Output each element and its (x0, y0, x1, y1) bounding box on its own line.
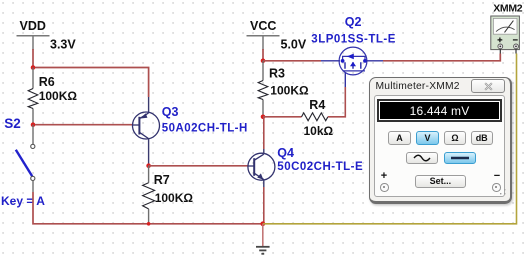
button DC (line) selected (444, 152, 477, 165)
wire R7 node to Q4 base (149, 165, 248, 167)
VCC power symbol (247, 36, 280, 50)
transistor Q3 (PNP 50A02CH-TL-H) (133, 112, 160, 139)
minus terminal (492, 183, 501, 192)
node VCC junction (261, 59, 266, 64)
wire S2 node to Q3 base (35, 124, 133, 126)
svg-text:3LP01SS-TL-E: 3LP01SS-TL-E (311, 34, 396, 46)
node R7 junction (146, 163, 151, 168)
wire Q4 emitter to ground rail (263, 187, 265, 224)
wire node to R4 (263, 116, 302, 118)
resistor R7 leads (148, 166, 150, 224)
wire VDD stem (32, 49, 34, 68)
Q3 emitter arrow (PNP) (140, 113, 147, 118)
node R7 bottom (147, 222, 151, 226)
Q2 substrate arrow (350, 62, 356, 66)
svg-text:3.3V: 3.3V (50, 38, 76, 52)
multimeter dialog window (369, 77, 512, 204)
wire Q2 gate pin (344, 72, 346, 87)
wire VDD node to Q3 emitter (top rail) (33, 68, 149, 98)
resistor R6 leads (32, 68, 34, 125)
dialog title (376, 81, 460, 92)
wire Q3 emitter pin (148, 97, 150, 113)
button Ω (444, 131, 466, 145)
svg-text:5.0V: 5.0V (281, 37, 307, 51)
ground stem (262, 224, 264, 246)
wire Q2 right pin (367, 60, 384, 62)
node ground junction (260, 221, 265, 226)
transistor Q4 (NPN 50C02CH-TL-E) (248, 153, 275, 180)
resistor R6 (28, 89, 38, 109)
svg-text:VCC: VCC (250, 19, 276, 33)
svg-text:100KΩ: 100KΩ (155, 191, 194, 205)
button V selected (416, 131, 440, 145)
svg-text:R4: R4 (309, 98, 325, 112)
svg-text:Q4: Q4 (277, 146, 294, 160)
svg-text:R6: R6 (39, 75, 55, 89)
svg-text:Q2: Q2 (345, 15, 362, 29)
switch S2 bottom contact (31, 176, 35, 180)
resistor R7 (143, 183, 155, 209)
resize grip (499, 188, 506, 195)
plus terminal label (381, 170, 387, 182)
svg-text:Key = A: Key = A (1, 194, 45, 208)
resistor R3 (258, 81, 268, 100)
switch S2 top contact (31, 144, 35, 148)
resistor R4 (302, 113, 328, 121)
svg-text:50C02CH-TL-E: 50C02CH-TL-E (277, 161, 363, 173)
svg-text:50A02CH-TL-H: 50A02CH-TL-H (162, 123, 248, 135)
wire ground rail to XMM2 minus (yellow net) (263, 54, 517, 224)
resistor R3 leads (262, 61, 264, 117)
Q2 pin dots (341, 59, 345, 63)
svg-text:100KΩ: 100KΩ (39, 89, 78, 103)
wire Q2 left pin (321, 60, 340, 62)
Q4 emitter arrow (NPN) (257, 173, 263, 179)
wire switch to bottom rail (33, 192, 263, 224)
svg-text:VDD: VDD (20, 19, 46, 33)
VDD power symbol (17, 36, 50, 50)
wire VCC stem (262, 49, 264, 61)
svg-text:R7: R7 (154, 173, 170, 187)
multimeter XMM2 icon (491, 16, 520, 54)
svg-text:R3: R3 (269, 66, 285, 80)
svg-text:Q3: Q3 (162, 105, 179, 119)
node R3/R4/Q4 junction (261, 115, 266, 120)
minus terminal label (494, 170, 500, 182)
wire Q2 to XMM2 plus (383, 54, 500, 61)
button AC (sine) (406, 152, 439, 165)
wire VCC to Q2 (263, 60, 321, 62)
wire Q3 collector to R7 node (148, 139, 150, 166)
dialog close button (471, 79, 505, 93)
button dB (471, 131, 493, 145)
dialog inner panel (374, 95, 505, 197)
button A (388, 131, 412, 145)
dialog display 16.444 mV (377, 99, 502, 122)
switch S2 top lead (32, 125, 34, 145)
svg-text:S2: S2 (4, 116, 21, 131)
node VDD junction (31, 65, 36, 70)
node S2 junction (31, 122, 36, 127)
wire Q4 collector (263, 117, 265, 149)
wire Q4 emitter pin (263, 180, 265, 187)
wire Q4 collector pin (263, 149, 265, 154)
svg-text:10kΩ: 10kΩ (304, 124, 334, 138)
ground (256, 247, 270, 254)
svg-text:100KΩ: 100KΩ (270, 84, 309, 98)
wire R4 to Q2 gate (328, 87, 345, 117)
transistor Q2 (PMOS 3LP01SS-TL-E) (339, 47, 367, 75)
svg-text:XMM2: XMM2 (493, 3, 523, 15)
plus terminal (380, 183, 389, 192)
Set button (415, 175, 466, 189)
switch S2 blade (16, 150, 32, 176)
switch S2 bottom lead (32, 181, 34, 193)
Q2 source arrow (347, 54, 354, 60)
